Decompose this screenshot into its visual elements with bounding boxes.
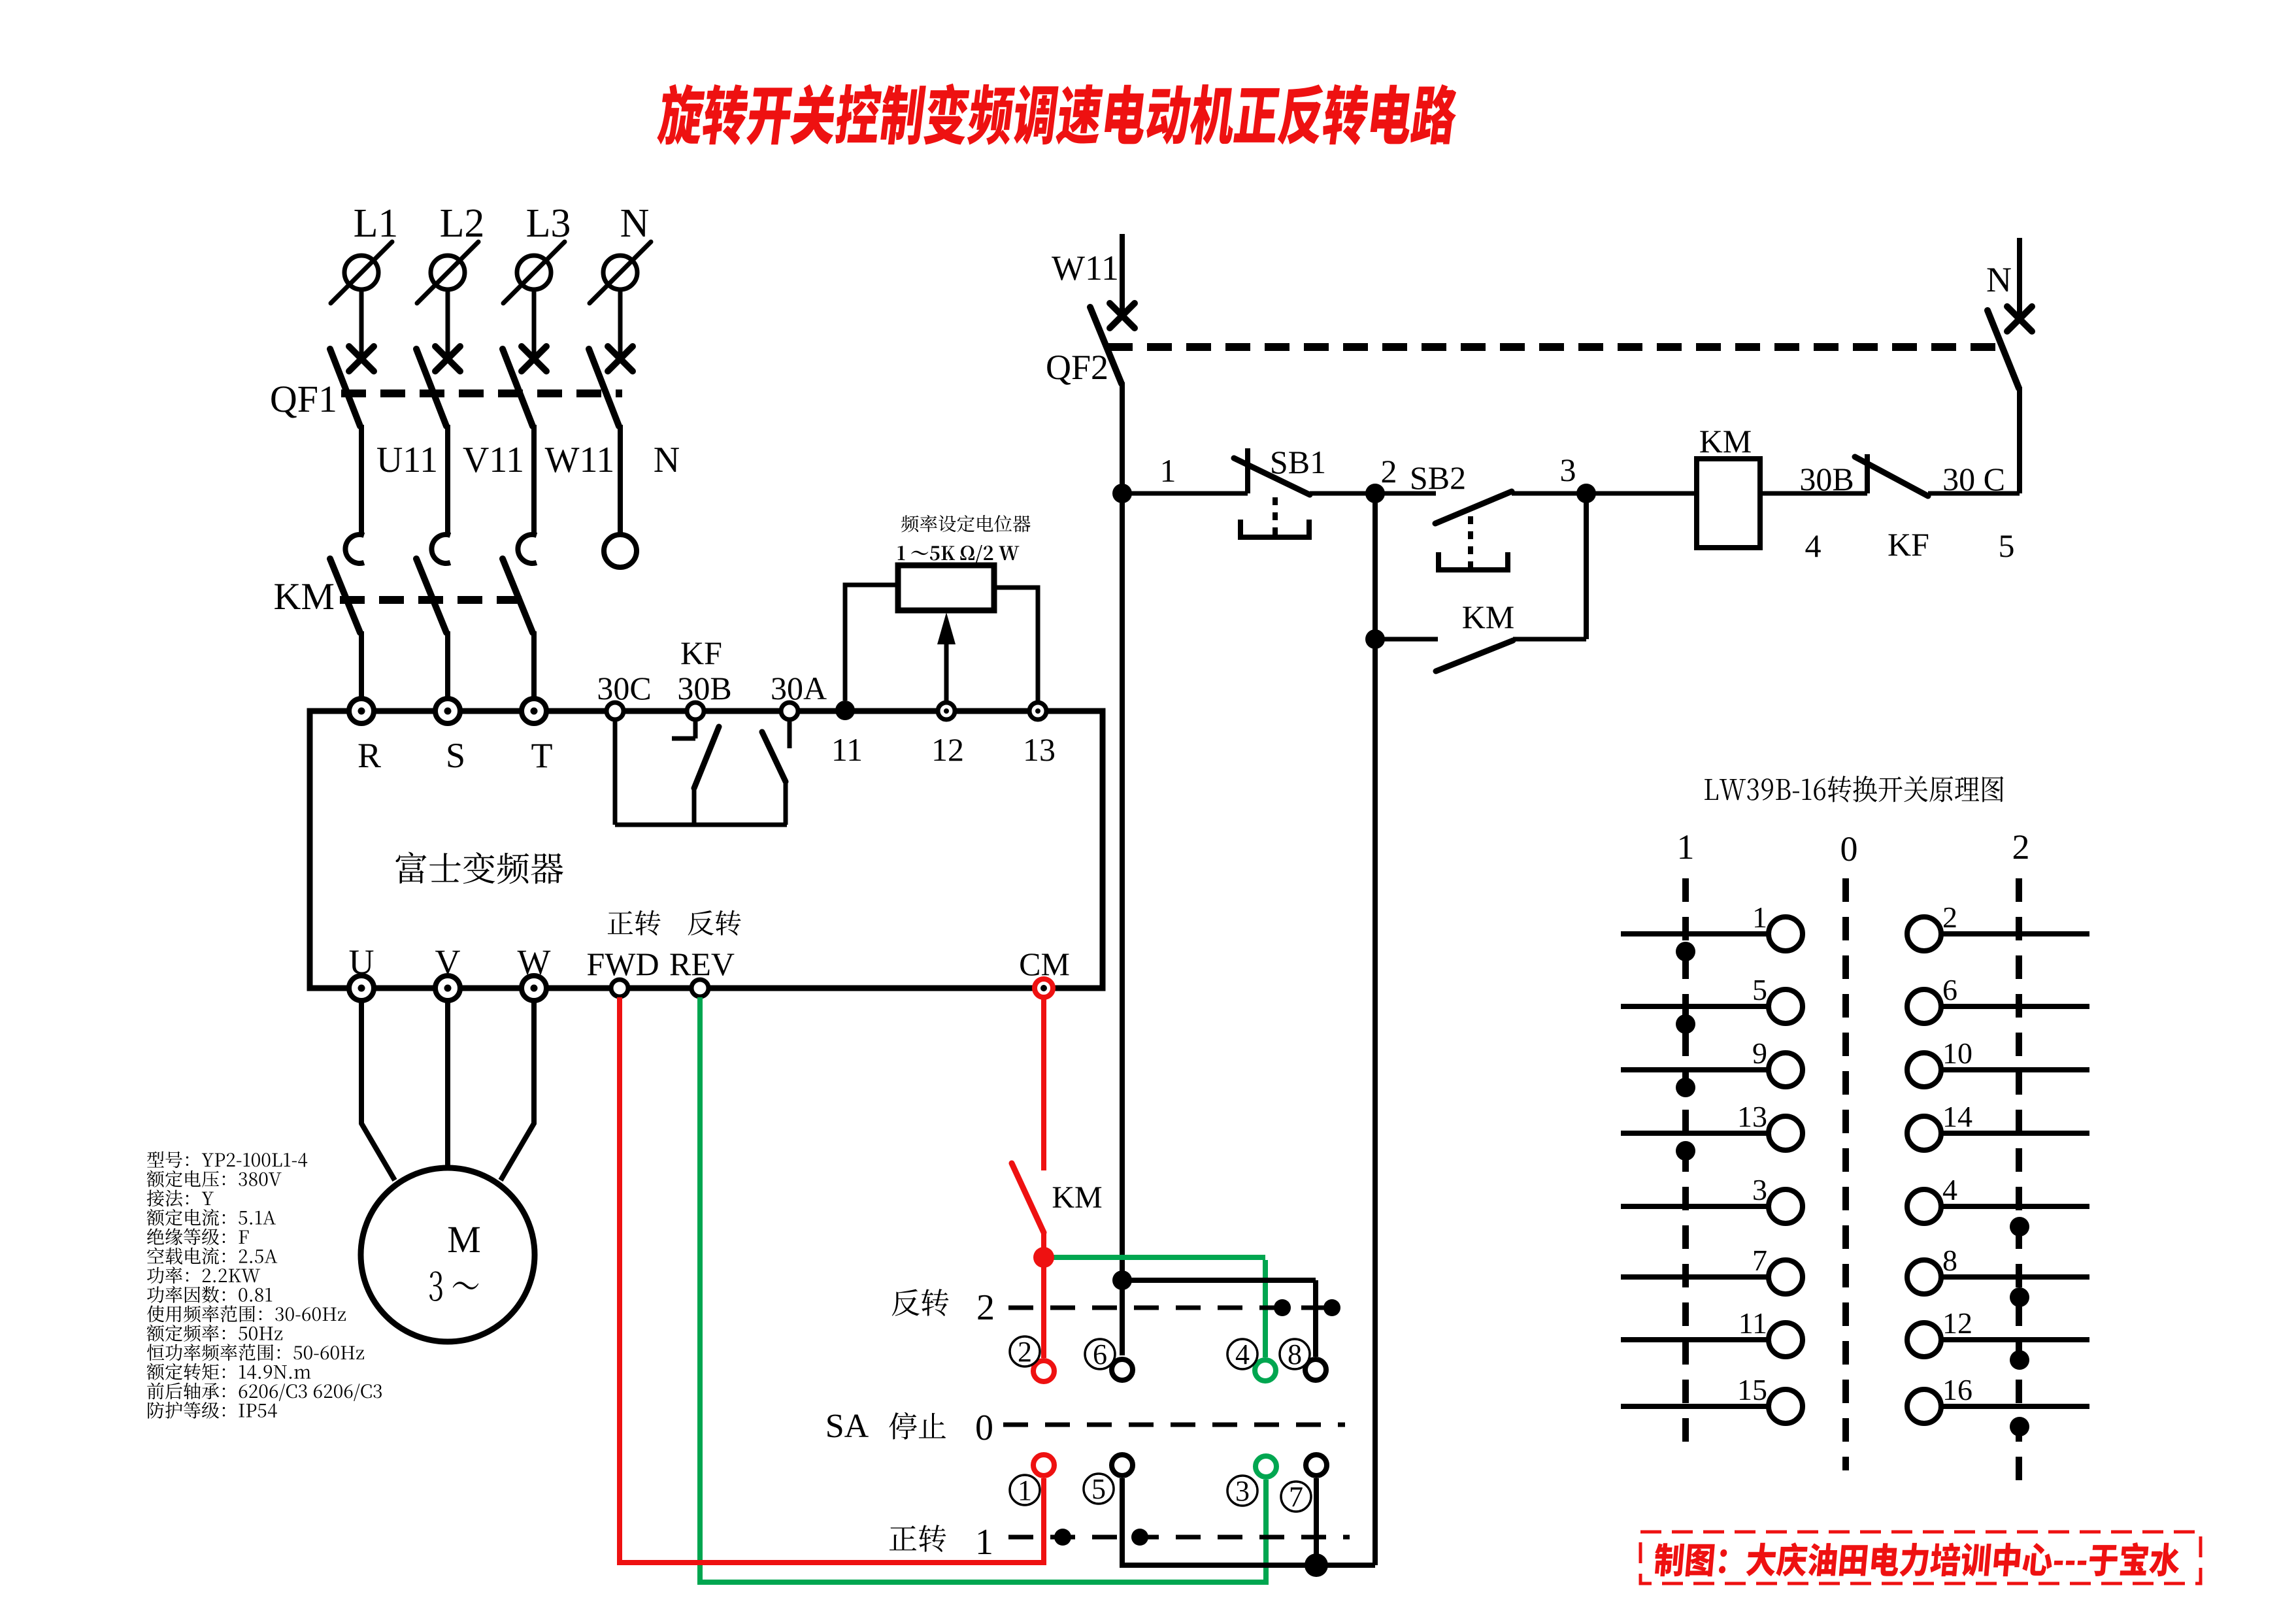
svg-text:S: S: [446, 736, 465, 775]
svg-text:8: 8: [1942, 1244, 1957, 1277]
svg-text:5: 5: [1091, 1473, 1106, 1505]
svg-text:KF: KF: [1888, 526, 1929, 563]
svg-text:14: 14: [1942, 1100, 1972, 1133]
svg-text:N: N: [1986, 260, 2012, 299]
svg-text:W11: W11: [1052, 248, 1119, 288]
svg-text:7: 7: [1289, 1481, 1303, 1513]
svg-text:2: 2: [2012, 827, 2030, 867]
svg-text:1: 1: [1160, 452, 1176, 489]
svg-text:FWD: FWD: [586, 946, 659, 982]
svg-text:2: 2: [976, 1287, 995, 1328]
svg-text:SB1: SB1: [1270, 444, 1326, 480]
svg-text:L1: L1: [354, 201, 399, 246]
svg-text:V: V: [435, 942, 461, 982]
svg-text:U11: U11: [376, 440, 438, 480]
svg-text:1: 1: [1018, 1474, 1032, 1506]
svg-text:13: 13: [1737, 1100, 1767, 1133]
svg-text:9: 9: [1752, 1036, 1767, 1070]
svg-text:SA: SA: [825, 1408, 869, 1445]
svg-text:KM: KM: [1699, 423, 1752, 459]
svg-text:W11: W11: [545, 440, 615, 480]
svg-text:T: T: [531, 736, 553, 775]
svg-text:6: 6: [1093, 1338, 1107, 1370]
svg-text:L2: L2: [440, 201, 485, 246]
svg-text:7: 7: [1752, 1244, 1767, 1277]
svg-text:13: 13: [1023, 731, 1056, 768]
svg-text:8: 8: [1288, 1338, 1302, 1370]
svg-text:16: 16: [1942, 1373, 1972, 1406]
svg-text:15: 15: [1737, 1373, 1767, 1406]
svg-text:2: 2: [1381, 453, 1397, 489]
svg-text:QF2: QF2: [1046, 348, 1108, 387]
svg-text:KF: KF: [680, 635, 722, 671]
svg-text:4: 4: [1942, 1173, 1957, 1206]
svg-text:11: 11: [831, 731, 863, 768]
svg-text:30C: 30C: [597, 670, 651, 706]
svg-text:V11: V11: [463, 440, 524, 480]
svg-text:3: 3: [1752, 1173, 1767, 1206]
svg-text:4: 4: [1235, 1338, 1250, 1370]
svg-text:3: 3: [1560, 452, 1576, 488]
svg-text:11: 11: [1739, 1306, 1767, 1340]
svg-text:12: 12: [1942, 1306, 1972, 1340]
svg-text:5: 5: [1752, 973, 1767, 1006]
svg-text:SB2: SB2: [1410, 459, 1466, 496]
svg-text:KM: KM: [1462, 599, 1515, 635]
svg-text:0: 0: [975, 1408, 993, 1448]
svg-text:2: 2: [1942, 901, 1957, 934]
svg-text:3: 3: [1235, 1475, 1250, 1507]
svg-text:4: 4: [1805, 527, 1822, 564]
svg-text:30B: 30B: [677, 670, 731, 706]
svg-text:0: 0: [1840, 829, 1858, 869]
svg-text:5: 5: [1999, 527, 2015, 564]
svg-text:QF1: QF1: [270, 378, 337, 420]
svg-text:N: N: [620, 201, 650, 246]
svg-text:L3: L3: [526, 201, 571, 246]
svg-text:U: U: [349, 942, 374, 982]
svg-text:6: 6: [1942, 973, 1957, 1006]
svg-text:W: W: [518, 942, 551, 982]
svg-text:CM: CM: [1019, 946, 1070, 982]
svg-text:10: 10: [1942, 1036, 1972, 1070]
svg-text:1: 1: [1752, 901, 1767, 934]
svg-text:1: 1: [975, 1522, 993, 1563]
svg-text:KM: KM: [274, 575, 335, 618]
svg-text:2: 2: [1018, 1336, 1032, 1368]
svg-text:REV: REV: [669, 946, 735, 982]
svg-text:30A: 30A: [771, 670, 827, 706]
svg-text:N: N: [654, 440, 680, 480]
svg-text:30B: 30B: [1799, 461, 1854, 497]
svg-text:KM: KM: [1052, 1180, 1102, 1215]
svg-text:12: 12: [931, 731, 964, 768]
svg-text:R: R: [358, 736, 381, 775]
svg-text:M: M: [447, 1218, 481, 1261]
svg-text:30 C: 30 C: [1942, 461, 2005, 497]
svg-text:1: 1: [1677, 827, 1695, 867]
